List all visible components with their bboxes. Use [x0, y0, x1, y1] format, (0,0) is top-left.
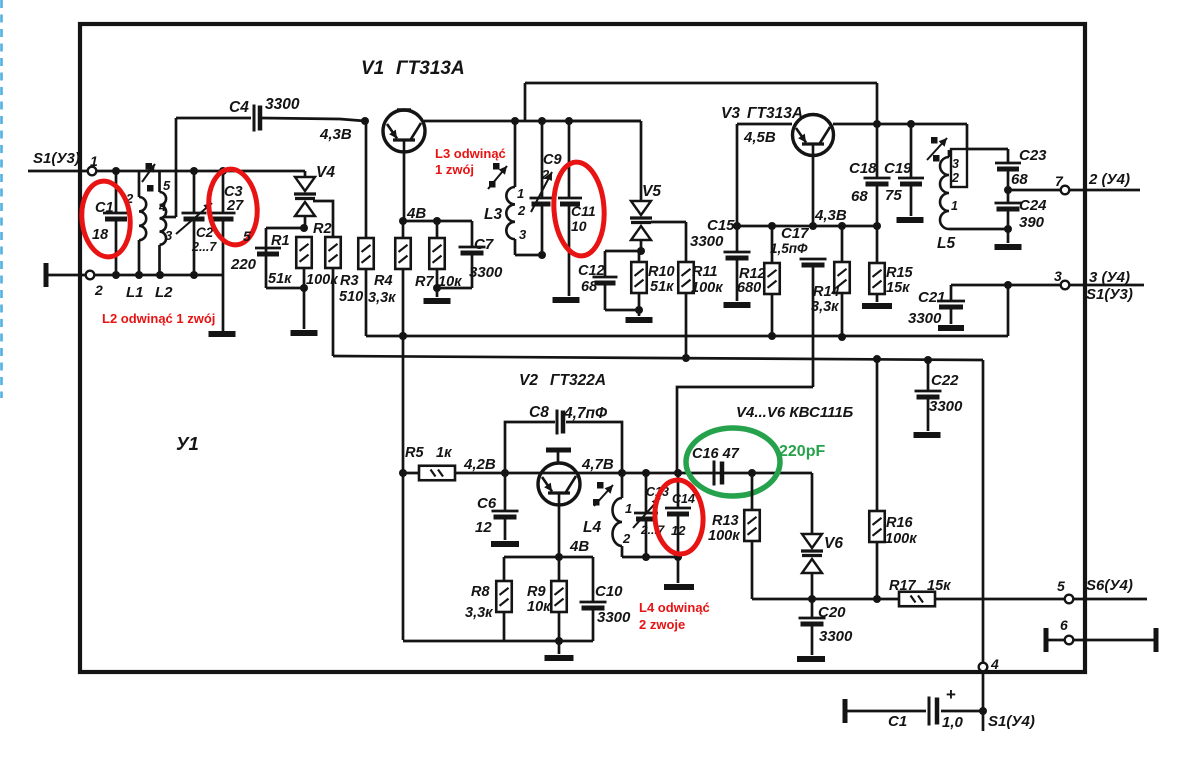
svg-text:R2: R2 [313, 221, 332, 237]
svg-text:C21: C21 [918, 289, 946, 306]
svg-text:ГТ322А: ГТ322А [550, 372, 606, 389]
svg-text:68: 68 [581, 279, 598, 295]
svg-text:4: 4 [158, 199, 167, 214]
svg-text:S1(У3): S1(У3) [33, 150, 80, 167]
svg-text:2: 2 [622, 531, 631, 546]
svg-text:R4: R4 [374, 273, 393, 289]
svg-text:15к: 15к [886, 280, 910, 296]
svg-text:100к: 100к [691, 280, 723, 296]
svg-text:L2: L2 [155, 284, 173, 301]
svg-text:L4: L4 [583, 519, 601, 536]
svg-text:C16 47: C16 47 [692, 446, 740, 462]
svg-text:68: 68 [851, 188, 868, 205]
svg-text:C17: C17 [781, 225, 809, 242]
svg-text:3300: 3300 [597, 609, 631, 626]
svg-text:S6(У4): S6(У4) [1086, 577, 1133, 594]
svg-text:4,7В: 4,7В [581, 456, 614, 473]
svg-text:4,7пФ: 4,7пФ [563, 405, 608, 422]
svg-text:C4: C4 [229, 99, 249, 116]
svg-text:15к: 15к [927, 578, 951, 594]
svg-text:V1: V1 [361, 58, 384, 79]
svg-text:10к: 10к [527, 599, 551, 615]
svg-text:1,0: 1,0 [942, 714, 964, 731]
svg-text:L3: L3 [484, 206, 502, 223]
svg-text:V6: V6 [824, 535, 843, 552]
svg-text:68: 68 [1011, 171, 1028, 188]
svg-text:C1: C1 [888, 713, 907, 730]
svg-text:R17: R17 [889, 578, 917, 594]
svg-text:1,5пФ: 1,5пФ [770, 241, 808, 256]
svg-text:L2 odwinąć 1 zwój: L2 odwinąć 1 zwój [102, 311, 215, 326]
svg-text:3: 3 [165, 228, 173, 243]
svg-text:4: 4 [990, 656, 999, 672]
svg-text:510: 510 [339, 289, 363, 305]
svg-text:C6: C6 [477, 495, 497, 512]
svg-text:R16: R16 [886, 515, 914, 531]
svg-text:3,3к: 3,3к [368, 290, 396, 306]
svg-text:C12: C12 [578, 263, 605, 279]
svg-text:51к: 51к [650, 279, 674, 295]
svg-text:3: 3 [952, 157, 959, 171]
svg-text:3300: 3300 [690, 233, 724, 250]
svg-text:3,3к: 3,3к [465, 605, 493, 621]
svg-text:6: 6 [1060, 617, 1068, 633]
svg-text:75: 75 [885, 187, 902, 204]
svg-text:2: 2 [517, 203, 526, 218]
svg-text:3300: 3300 [469, 264, 503, 281]
svg-text:L5: L5 [937, 235, 955, 252]
svg-text:C10: C10 [595, 583, 623, 600]
svg-text:1к: 1к [436, 445, 452, 461]
svg-text:100к: 100к [885, 531, 917, 547]
svg-text:2...7: 2...7 [191, 240, 217, 254]
svg-text:680: 680 [737, 280, 761, 296]
svg-text:R14: R14 [813, 284, 840, 300]
svg-text:5: 5 [163, 178, 171, 193]
svg-text:L4 odwinąć: L4 odwinąć [639, 600, 710, 615]
svg-text:3,3к: 3,3к [811, 299, 839, 315]
svg-text:C19: C19 [884, 160, 912, 177]
svg-text:3300: 3300 [908, 310, 942, 327]
svg-text:7: 7 [1055, 173, 1064, 189]
svg-text:1: 1 [625, 501, 632, 516]
svg-text:+: + [946, 685, 956, 704]
svg-text:220pF: 220pF [779, 443, 825, 460]
svg-text:V4...V6 КВС111Б: V4...V6 КВС111Б [736, 404, 854, 421]
svg-text:4,2В: 4,2В [463, 456, 496, 473]
svg-text:V4: V4 [316, 164, 335, 181]
svg-text:2: 2 [951, 171, 959, 185]
svg-text:3: 3 [519, 227, 527, 242]
svg-text:S1(У3): S1(У3) [1086, 286, 1133, 303]
svg-text:V2: V2 [519, 372, 538, 389]
svg-text:R7: R7 [415, 274, 434, 290]
svg-text:C18: C18 [849, 160, 877, 177]
svg-text:3300: 3300 [265, 96, 300, 113]
svg-text:V5: V5 [642, 183, 661, 200]
svg-text:C1: C1 [95, 200, 114, 216]
svg-text:C11: C11 [571, 203, 596, 219]
svg-text:100к: 100к [708, 528, 740, 544]
svg-text:2...7: 2...7 [640, 523, 666, 537]
svg-text:ГТ313А: ГТ313А [747, 105, 803, 122]
svg-text:2: 2 [541, 167, 550, 182]
svg-text:12: 12 [475, 519, 492, 536]
svg-text:3300: 3300 [929, 398, 963, 415]
svg-text:V3: V3 [721, 105, 740, 122]
svg-text:18: 18 [92, 227, 109, 243]
svg-text:R1: R1 [271, 233, 290, 249]
svg-text:C24: C24 [1019, 197, 1047, 214]
svg-text:5: 5 [1057, 578, 1065, 594]
svg-text:C23: C23 [1019, 147, 1047, 164]
svg-text:1 zwój: 1 zwój [435, 162, 474, 177]
svg-text:C8: C8 [529, 404, 549, 421]
svg-text:4,3В: 4,3В [814, 207, 847, 224]
svg-text:R15: R15 [886, 265, 914, 281]
svg-text:51к: 51к [268, 271, 292, 287]
svg-text:1: 1 [951, 199, 958, 213]
svg-text:R9: R9 [527, 584, 546, 600]
svg-text:3: 3 [1054, 268, 1062, 284]
svg-text:C2: C2 [196, 225, 214, 240]
svg-text:4В: 4В [569, 538, 589, 555]
svg-text:27: 27 [226, 198, 244, 214]
svg-text:4В: 4В [406, 205, 426, 222]
svg-text:R5: R5 [405, 445, 424, 461]
svg-text:C14: C14 [672, 492, 695, 506]
svg-text:100к: 100к [306, 272, 338, 288]
svg-text:10: 10 [571, 218, 587, 234]
svg-text:4,3В: 4,3В [319, 126, 352, 143]
svg-text:L1: L1 [126, 284, 144, 301]
svg-text:12: 12 [671, 523, 686, 538]
svg-text:C7: C7 [474, 236, 494, 253]
svg-text:L3 odwinąć: L3 odwinąć [435, 146, 506, 161]
svg-text:R8: R8 [471, 584, 490, 600]
svg-text:3 (У4): 3 (У4) [1089, 269, 1130, 286]
svg-text:2 zwoje: 2 zwoje [639, 617, 685, 632]
svg-text:C9: C9 [543, 152, 562, 168]
svg-text:R10: R10 [648, 264, 675, 280]
svg-text:2 (У4): 2 (У4) [1088, 171, 1130, 188]
svg-text:У1: У1 [176, 433, 199, 454]
svg-text:R3: R3 [340, 273, 359, 289]
svg-text:1: 1 [90, 153, 98, 169]
svg-text:1: 1 [517, 186, 524, 201]
svg-text:C15: C15 [707, 217, 735, 234]
svg-text:3300: 3300 [819, 628, 853, 645]
svg-text:4,5В: 4,5В [743, 129, 776, 146]
svg-text:C20: C20 [818, 604, 846, 621]
svg-text:ГТ313А: ГТ313А [396, 58, 465, 79]
svg-text:390: 390 [1019, 214, 1045, 231]
svg-text:R13: R13 [712, 513, 739, 529]
svg-text:220: 220 [230, 256, 257, 273]
svg-text:C22: C22 [931, 372, 959, 389]
svg-text:5: 5 [243, 228, 251, 244]
svg-text:R11: R11 [692, 264, 718, 280]
svg-text:S1(У4): S1(У4) [988, 713, 1035, 730]
svg-text:2: 2 [94, 282, 103, 298]
